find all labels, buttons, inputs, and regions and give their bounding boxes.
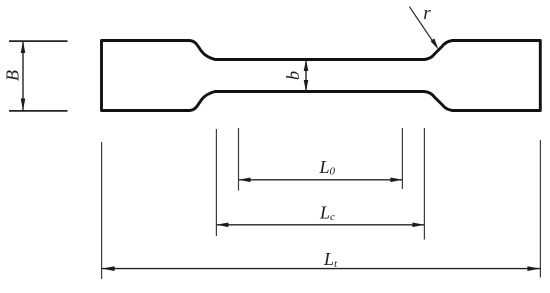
- svg-text:Lt: Lt: [323, 249, 338, 270]
- Lt extension lines: [101, 142, 103, 279]
- svg-text:b: b: [283, 71, 303, 80]
- Lc extension lines: [215, 129, 217, 236]
- Lc dimension line: [216, 224, 424, 226]
- L0 extension lines: [238, 128, 240, 191]
- svg-text:B: B: [3, 70, 23, 81]
- dimension b: dimension line with arrows: [305, 60, 307, 92]
- radius leader r: [409, 7, 436, 47]
- svg-text:r: r: [423, 3, 431, 24]
- dimension B: extension lines: [9, 40, 68, 42]
- dimension B: dimension line with arrows: [22, 41, 24, 111]
- svg-text:Lc: Lc: [319, 203, 335, 224]
- L0 dimension line: [239, 179, 403, 181]
- Lt dimension line: [102, 268, 541, 270]
- svg-text:L0: L0: [319, 157, 336, 178]
- specimen outline (dog-bone tensile test piece): [102, 41, 541, 111]
